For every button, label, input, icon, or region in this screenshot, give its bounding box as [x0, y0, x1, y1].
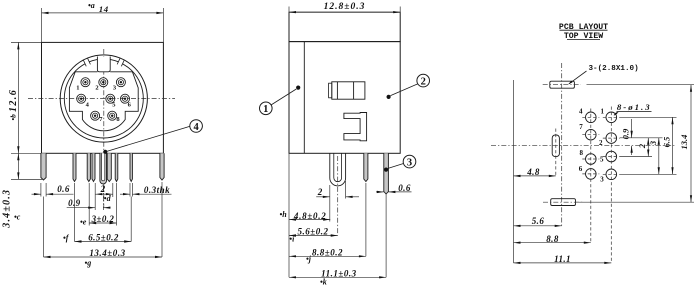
pcb vertical centerline [561, 63, 563, 226]
svg-text:8-ø1.3: 8-ø1.3 [617, 102, 652, 112]
svg-text:0.9: 0.9 [68, 198, 81, 208]
svg-text:4.8±0.2: 4.8±0.2 [293, 211, 327, 221]
pcb left reference line [513, 80, 515, 263]
pcb dim 11.1 [514, 262, 612, 264]
front view horizontal centerline [28, 98, 175, 100]
dimension 0.6 leg width [32, 193, 41, 195]
pin 5 front view [106, 94, 115, 103]
dimension 0.6 rear leg width [376, 191, 384, 193]
callout 3 leader [388, 164, 404, 169]
connector face outer circle [60, 55, 147, 142]
pcb dim 5.6 [514, 225, 562, 227]
pcb row extension lines right [620, 116, 677, 118]
dimension 0.3thk [120, 193, 130, 195]
center shield contact outer [100, 153, 107, 184]
svg-text:4: 4 [579, 108, 583, 116]
contact leg f [130, 153, 132, 181]
svg-text:2: 2 [95, 84, 98, 91]
rim notch right [117, 58, 124, 66]
center shield contact inner [102, 153, 105, 181]
svg-text:6.5±0.2: 6.5±0.2 [88, 232, 119, 242]
svg-text:0.6: 0.6 [57, 184, 70, 194]
dimension c extension lines [11, 152, 42, 154]
svg-text:12.6: 12.6 [8, 89, 19, 112]
callout 4 leader line [107, 126, 190, 151]
svg-text:2: 2 [421, 76, 426, 87]
leader dot callout 3 [384, 168, 388, 172]
pcb top slot [550, 81, 575, 88]
pcb bottom slot [551, 199, 576, 206]
svg-text:•d: •d [104, 194, 112, 203]
svg-text:7: 7 [579, 123, 583, 131]
pcb dim 2 [647, 138, 649, 157]
svg-text:2: 2 [637, 143, 647, 149]
shield side tab leg left 0.6 wide [41, 153, 46, 180]
pin 6 front view [121, 94, 130, 103]
svg-text:2: 2 [317, 187, 323, 197]
svg-text:•g: •g [85, 259, 92, 268]
svg-text:14: 14 [99, 4, 109, 14]
pcb vertical slot [552, 135, 559, 157]
svg-text:0.3thk: 0.3thk [144, 185, 170, 195]
pcb horizontal centerline [491, 145, 676, 147]
svg-text:5.6: 5.6 [532, 216, 545, 226]
leader dot for callout 4 [103, 150, 107, 154]
svg-text:3: 3 [407, 157, 412, 168]
svg-text:3-(2.8X1.0): 3-(2.8X1.0) [589, 65, 639, 73]
key slot tab [97, 57, 110, 72]
svg-text:3.4±0.3: 3.4±0.3 [2, 189, 13, 229]
svg-text:13.4: 13.4 [679, 135, 689, 150]
dimension b 12.6 line [17, 42, 19, 153]
front view body outline [42, 42, 164, 153]
pcb hole pin 7 [586, 129, 597, 140]
svg-text:4.8: 4.8 [526, 167, 540, 177]
svg-text:0.9: 0.9 [621, 128, 631, 139]
callout 3 balloon [403, 155, 416, 168]
contact leg e [107, 153, 111, 181]
pcb dim 13.4 extension lines [587, 84, 695, 86]
leader dot callout 2 [387, 95, 391, 99]
pcb hole pin 2 [606, 133, 617, 144]
side view bracket feature [344, 113, 367, 141]
pin 3 front view [116, 78, 125, 87]
svg-text:4: 4 [193, 122, 199, 133]
dimension e 3 +-0.2 [89, 222, 116, 224]
svg-text:3±0.2: 3±0.2 [91, 214, 115, 224]
pcb dim 6.5 [672, 117, 674, 174]
pin 7 front view [91, 111, 100, 120]
dimension k 11.1 [289, 276, 386, 278]
callout 2 balloon [417, 74, 430, 87]
dimension 2 shield width side view [316, 196, 330, 198]
svg-text:6.5: 6.5 [661, 136, 671, 147]
pcb hole pin 4 [586, 112, 597, 123]
contact leg b [73, 153, 76, 181]
side view shield center line [337, 156, 339, 236]
pcb hole pin 8 [586, 154, 597, 165]
svg-text:•h: •h [280, 210, 288, 219]
connector face inner rim circle [64, 59, 143, 138]
side view shield contact outer [330, 153, 346, 186]
pcb dim 8.8 [514, 242, 591, 244]
svg-text:13.4±0.3: 13.4±0.3 [89, 248, 125, 258]
svg-text:•e: •e [80, 218, 87, 227]
pcb hole pin 3 [606, 169, 617, 180]
extension lines from legs [40, 183, 42, 197]
shield side tab leg right [160, 153, 164, 180]
dimension 12.8 extension lines [288, 7, 290, 13]
svg-text:6: 6 [579, 165, 583, 173]
shield aperture contour [69, 72, 138, 131]
svg-text:1: 1 [263, 104, 268, 115]
pin 8 front view [108, 111, 117, 120]
svg-text:3: 3 [648, 140, 658, 146]
side view pin leg rear [384, 153, 389, 194]
svg-text:•a: •a [88, 1, 95, 10]
pcb dim 4.8 [514, 175, 556, 177]
svg-text:•i: •i [289, 234, 295, 243]
side view latch window [332, 82, 365, 99]
svg-text:•b: •b [8, 114, 17, 121]
dimension j 8.8 [289, 255, 366, 257]
front view vertical centerline [103, 49, 105, 208]
pcb top slot centerline [543, 84, 581, 86]
pcb bottom slot centerline [543, 201, 583, 203]
contact leg e2 [115, 153, 118, 181]
svg-text:1: 1 [76, 85, 79, 92]
pin 1 front view [81, 78, 90, 87]
side view extension lines down [288, 153, 290, 277]
svg-text:8: 8 [580, 149, 584, 157]
pcb dim 3 [658, 138, 660, 175]
svg-text:•j: •j [306, 255, 312, 264]
dimension c line [17, 153, 19, 179]
svg-text:12.8±0.3: 12.8±0.3 [324, 2, 366, 12]
pcb hole pin 5 [606, 151, 617, 162]
side view latch window left tab [329, 83, 332, 98]
dimension g 13.4 +-0.3 [44, 256, 163, 258]
callout 1 leader [271, 89, 296, 105]
pcb hole pin 1 [606, 112, 617, 123]
dimension h 4.8 [289, 219, 330, 221]
side view main body [289, 42, 400, 154]
dimension 0.9 line [67, 207, 96, 209]
leader dot callout 1 [296, 86, 300, 90]
callout 2 leader [391, 84, 418, 96]
side view shield contact inner [334, 153, 342, 181]
rim notch left [83, 58, 90, 66]
side view pin leg mid [364, 153, 368, 181]
dimension a 14 extension lines [41, 8, 43, 42]
pcb hole pin 6 [586, 169, 597, 180]
svg-text:2: 2 [599, 139, 603, 147]
svg-text:•k: •k [320, 278, 327, 287]
contact leg d [92, 153, 95, 181]
side view front lip line [303, 42, 305, 154]
svg-text:1: 1 [601, 108, 605, 116]
pin 4 front view [77, 94, 86, 103]
svg-text:•c: •c [14, 212, 21, 221]
svg-text:2: 2 [100, 184, 106, 194]
pcb hole column centerlines [590, 109, 592, 243]
dimension 12.8 line [289, 11, 400, 13]
side view top flange [289, 12, 400, 41]
pcb dim 0.9 [631, 119, 633, 138]
contact leg c [87, 153, 90, 181]
dimension a 14 line [42, 12, 164, 14]
svg-text:11.1: 11.1 [554, 254, 571, 264]
dimension i 5.6 [289, 235, 338, 237]
svg-text:5: 5 [600, 156, 604, 164]
pcb vertical slot centerline [555, 129, 557, 176]
svg-text:8.8±0.2: 8.8±0.2 [312, 247, 343, 257]
dimension f 6.5 +-0.2 [75, 241, 132, 243]
svg-text:0.6: 0.6 [398, 183, 411, 193]
dimension b 12.6 extension lines [11, 41, 42, 43]
dimension 2 contact span [95, 193, 113, 195]
svg-text:5.6±0.2: 5.6±0.2 [298, 227, 329, 237]
callout 1 balloon [260, 102, 273, 115]
callout 4 balloon [190, 120, 203, 133]
svg-text:3: 3 [600, 176, 604, 184]
svg-text:8.8: 8.8 [546, 234, 559, 244]
pcb dim 13.4 [690, 85, 692, 203]
pin 2 front view [99, 78, 108, 87]
